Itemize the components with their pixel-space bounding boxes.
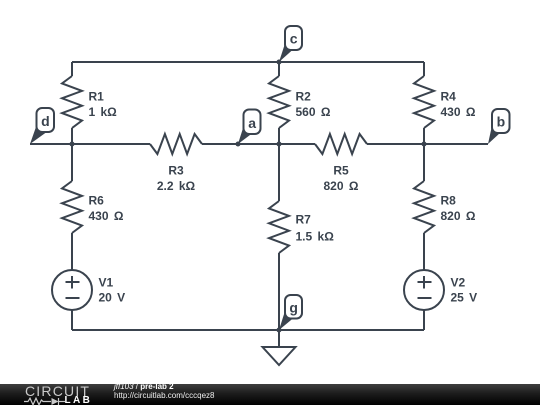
voltage source V2 <box>404 270 444 310</box>
wire right branch R4 leads <box>423 62 425 76</box>
svg-text:25 V: 25 V <box>451 291 478 305</box>
node c flag <box>279 26 302 62</box>
resistor R4 <box>414 76 434 128</box>
resistor R5 <box>315 134 367 154</box>
wire middle branch R7 leads <box>278 144 280 201</box>
svg-text:R5: R5 <box>333 164 349 178</box>
svg-text:d: d <box>41 113 50 129</box>
svg-text:R1: R1 <box>89 90 105 104</box>
svg-text:V2: V2 <box>451 276 466 290</box>
svg-text:b: b <box>497 114 506 130</box>
node junction dot g <box>277 328 282 333</box>
svg-text:2.2 kΩ: 2.2 kΩ <box>157 179 196 193</box>
wire top rail <box>72 61 424 63</box>
node junction dot a <box>236 142 241 147</box>
wire left branch R6 leads <box>71 144 73 181</box>
wire middle branch R2 leads <box>278 62 280 76</box>
resistor R2 <box>269 76 289 128</box>
resistor R1 <box>62 76 82 128</box>
node d flag <box>30 108 54 144</box>
junction dot right-mid <box>422 142 427 147</box>
svg-text:V1: V1 <box>99 276 114 290</box>
junction dot mid-mid <box>277 142 282 147</box>
ground <box>278 330 280 347</box>
node b flag <box>488 109 510 144</box>
voltage source V1 <box>52 270 92 310</box>
footer bar <box>0 384 540 405</box>
svg-text:20 V: 20 V <box>99 291 126 305</box>
resistor R7 <box>269 201 289 253</box>
footer url text <box>114 391 214 401</box>
node junction dot c <box>277 60 282 65</box>
svg-text:g: g <box>289 300 298 316</box>
footer title text <box>114 382 174 392</box>
wire V2 bottom lead <box>423 310 425 330</box>
wire left branch R1 leads <box>71 62 73 76</box>
CircuitLab logo <box>25 383 90 399</box>
node g flag <box>279 295 302 330</box>
svg-text:820 Ω: 820 Ω <box>441 209 476 223</box>
svg-text:1.5 kΩ: 1.5 kΩ <box>296 230 335 244</box>
svg-text:R2: R2 <box>296 90 312 104</box>
wire right branch R8 leads <box>423 144 425 181</box>
wire V1 bottom lead <box>71 310 73 330</box>
node a flag <box>238 110 261 145</box>
wire mid rail right segment <box>367 143 488 145</box>
wire mid rail left segment <box>30 143 150 145</box>
svg-text:430 Ω: 430 Ω <box>441 105 476 119</box>
wire mid rail center segment <box>202 143 315 145</box>
svg-text:820 Ω: 820 Ω <box>324 179 359 193</box>
svg-text:R8: R8 <box>441 194 457 208</box>
resistor R3 <box>150 134 202 154</box>
svg-text:430 Ω: 430 Ω <box>89 209 124 223</box>
svg-text:R4: R4 <box>441 90 457 104</box>
resistor R8 <box>414 181 434 233</box>
svg-text:R6: R6 <box>89 194 105 208</box>
svg-text:1 kΩ: 1 kΩ <box>89 105 118 119</box>
svg-text:a: a <box>248 115 256 131</box>
svg-text:R3: R3 <box>168 164 184 178</box>
wire bottom rail <box>72 329 424 331</box>
junction dot left-mid <box>70 142 75 147</box>
svg-text:R7: R7 <box>296 213 312 227</box>
svg-text:c: c <box>290 31 298 47</box>
resistor R6 <box>62 181 82 233</box>
svg-text:560 Ω: 560 Ω <box>296 105 331 119</box>
